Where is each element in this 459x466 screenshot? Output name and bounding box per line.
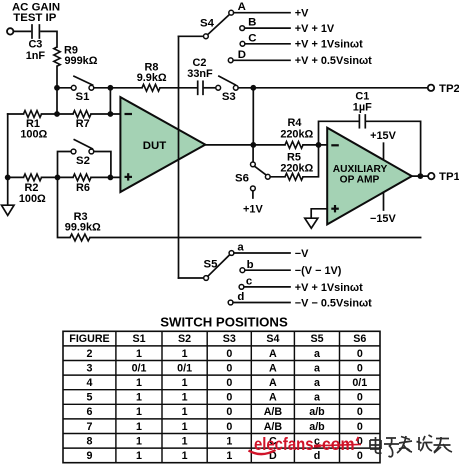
svg-text:S2: S2 [76, 155, 90, 167]
wire S5 contact a [234, 252, 290, 254]
wire R9 node to inverting line [56, 88, 58, 114]
node output/S3 junction [250, 142, 256, 148]
svg-text:A: A [238, 1, 246, 13]
resistor R9 [54, 47, 60, 66]
wire to S4 pivot [179, 35, 204, 37]
svg-text:0: 0 [357, 348, 363, 360]
wire S4 contact B [245, 27, 290, 29]
svg-text:c: c [246, 276, 252, 288]
svg-text:a: a [314, 392, 321, 404]
svg-text:7: 7 [87, 421, 93, 433]
capacitor C3 [32, 25, 39, 38]
svg-text:100Ω: 100Ω [19, 193, 46, 205]
ground aux [305, 218, 318, 228]
watermark chinese characters [370, 435, 452, 457]
op-amp DUT [120, 97, 205, 192]
wire S4 contact D [233, 59, 290, 61]
resistor R3 [70, 234, 90, 241]
node TP2 line junction [250, 85, 256, 91]
svg-text:S6: S6 [353, 333, 366, 345]
svg-text:OP AMP: OP AMP [340, 174, 380, 185]
node R4/R5/C1 junction [316, 142, 322, 148]
svg-text:a: a [314, 377, 321, 389]
wire C2 to S3 [204, 87, 216, 89]
ground [2, 205, 15, 215]
switch S5 [204, 251, 245, 305]
wire S1 to junction [94, 87, 142, 89]
resistor R7 [73, 111, 91, 118]
switch S3 [216, 76, 238, 90]
svg-text:0/1: 0/1 [177, 362, 192, 374]
wire junction down to inverting input line [109, 88, 111, 114]
wire S5 contact d [233, 302, 290, 304]
svg-text:−15V: −15V [370, 213, 396, 225]
svg-text:FIGURE: FIGURE [69, 333, 109, 345]
svg-text:R7: R7 [76, 118, 90, 130]
svg-text:0: 0 [226, 406, 232, 418]
svg-text:a/b: a/b [309, 421, 325, 433]
label +15V supply [370, 130, 396, 159]
wire S5 contact c [244, 286, 290, 288]
table row figure 7 [87, 421, 363, 433]
node S1/R8 junction [108, 85, 114, 91]
svg-text:1: 1 [136, 435, 142, 447]
svg-text:1: 1 [182, 406, 188, 418]
resistor R4 [285, 142, 303, 149]
svg-text:1: 1 [136, 421, 142, 433]
svg-text:8: 8 [87, 435, 93, 447]
resistor R5 [285, 173, 303, 180]
svg-text:1: 1 [182, 421, 188, 433]
switch S6 [251, 145, 271, 198]
svg-text:S3: S3 [222, 91, 236, 103]
wire aux output [412, 175, 428, 177]
wire R6 to DUT plus input [91, 176, 121, 178]
svg-text:1: 1 [136, 377, 142, 389]
svg-text:3: 3 [87, 362, 93, 374]
svg-text:S5: S5 [310, 333, 323, 345]
svg-text:S4: S4 [200, 18, 215, 30]
wire R2 to R6 [42, 176, 74, 178]
table row figure 5 [87, 392, 363, 404]
table row figure 9 [87, 450, 363, 462]
table switch positions grid [63, 331, 380, 462]
svg-text:elecfans: elecfans [254, 434, 314, 454]
svg-text:D: D [238, 49, 246, 61]
svg-text:0: 0 [226, 392, 232, 404]
svg-text:A: A [269, 392, 277, 404]
label R1 100ohm [20, 118, 47, 141]
svg-text:TP1: TP1 [439, 171, 459, 183]
svg-text:0: 0 [226, 421, 232, 433]
label R3 99.9k [65, 211, 101, 234]
wire S2 left leg [58, 152, 72, 178]
capacitor C2 [198, 81, 203, 94]
table row figure 6 [87, 406, 363, 418]
table row figure 8 [87, 435, 363, 447]
svg-text:0: 0 [226, 362, 232, 374]
svg-text:9.9kΩ: 9.9kΩ [137, 72, 167, 84]
wire node to S1 [57, 87, 71, 89]
capacitor C1 [359, 115, 365, 128]
watermark elecfans.com [249, 434, 362, 454]
svg-text:1µF: 1µF [353, 101, 372, 113]
svg-text:S1: S1 [76, 91, 91, 103]
svg-text:5: 5 [87, 392, 93, 404]
svg-text:220kΩ: 220kΩ [280, 128, 313, 140]
svg-text:0: 0 [357, 392, 363, 404]
wire DUT output [205, 144, 285, 146]
svg-text:1: 1 [136, 392, 142, 404]
wire R5 up to junction [303, 145, 319, 177]
wire S5 contact b [245, 269, 290, 271]
wire S5 leg [179, 277, 204, 279]
svg-text:R4: R4 [288, 117, 302, 129]
svg-text:C3: C3 [28, 38, 42, 50]
svg-text:S1: S1 [132, 333, 145, 345]
svg-text:1: 1 [182, 348, 188, 360]
label C2 33nF [187, 57, 213, 80]
input terminal [7, 28, 13, 34]
label R8 9.9k [137, 61, 167, 84]
node R9/S1 junction [54, 85, 60, 91]
svg-text:S3: S3 [223, 333, 236, 345]
label C1 1uF [353, 91, 372, 114]
table header row [69, 333, 366, 345]
resistor R1 [24, 111, 42, 118]
svg-text:1nF: 1nF [26, 50, 46, 62]
svg-text:100Ω: 100Ω [20, 128, 47, 140]
svg-text:S6: S6 [235, 173, 249, 185]
op-amp U1 auxiliary [327, 128, 412, 225]
svg-text:B: B [248, 17, 256, 29]
svg-text:+V + 1Vsinωt: +V + 1Vsinωt [295, 39, 363, 51]
svg-text:220kΩ: 220kΩ [280, 162, 313, 174]
wire left rail down [7, 114, 9, 205]
wire R1 to R7 [42, 113, 74, 115]
svg-text:0: 0 [357, 362, 363, 374]
wire S4 contact A [234, 12, 290, 14]
switch S4 [204, 10, 245, 62]
wire R7 to DUT minus input [91, 113, 121, 115]
wire inverting input line [8, 113, 24, 115]
wire R4 to aux minus input [303, 144, 327, 146]
svg-text:+V + 1Vsinωt: +V + 1Vsinωt [295, 282, 363, 294]
svg-text:A: A [269, 377, 277, 389]
table row figure 3 [87, 362, 363, 374]
svg-text:A: A [269, 362, 277, 374]
svg-text:1: 1 [136, 450, 142, 462]
wire noninverting input line [8, 176, 24, 178]
table row figure 4 [87, 377, 368, 389]
svg-text:+V: +V [295, 8, 309, 20]
svg-text:A/B: A/B [264, 421, 283, 433]
resistor R6 [73, 174, 91, 181]
wire R3 left leg down [58, 177, 71, 237]
svg-text:+1V: +1V [243, 203, 263, 215]
svg-text:1: 1 [226, 450, 232, 462]
node TP1 junction [418, 173, 424, 179]
wire S4 contact C [245, 43, 290, 45]
svg-text:6: 6 [87, 406, 93, 418]
svg-text:1: 1 [182, 435, 188, 447]
svg-text:99.9kΩ: 99.9kΩ [65, 221, 101, 233]
test point TP1 [428, 171, 459, 183]
switch S2 [71, 140, 94, 154]
label AC GAIN TEST IP [12, 2, 60, 25]
svg-text:DUT: DUT [143, 140, 166, 152]
node R6/DUT junction [108, 175, 114, 181]
svg-text:+V + 0.5Vsinωt: +V + 0.5Vsinωt [295, 55, 372, 67]
wire S2 right leg [94, 152, 111, 178]
wire S3 to TP2 [238, 87, 428, 89]
svg-text:A: A [269, 348, 277, 360]
wire aux plus input to ground [311, 209, 327, 218]
label R9 999k [64, 45, 98, 67]
label R2 100ohm [19, 182, 46, 205]
svg-text:0: 0 [357, 450, 363, 462]
svg-text:4: 4 [87, 377, 93, 389]
svg-text:1: 1 [136, 406, 142, 418]
wire C1 to output leg [367, 121, 421, 176]
svg-text:b: b [247, 259, 254, 271]
svg-text:0: 0 [226, 377, 232, 389]
svg-text:9: 9 [87, 450, 93, 462]
node left rail R2 junction [5, 175, 11, 181]
svg-text:A/B: A/B [264, 406, 283, 418]
wire R9 to node [56, 66, 58, 88]
svg-text:0: 0 [226, 348, 232, 360]
svg-text:1: 1 [182, 377, 188, 389]
node R2/R6/S2 junction [55, 175, 61, 181]
svg-text:C: C [248, 32, 256, 44]
svg-text:+15V: +15V [370, 130, 396, 142]
svg-text:a: a [237, 242, 244, 254]
svg-text:0/1: 0/1 [132, 362, 147, 374]
svg-text:a: a [314, 362, 321, 374]
svg-text:0: 0 [357, 421, 363, 433]
svg-text:a: a [314, 348, 321, 360]
svg-text:2: 2 [87, 348, 93, 360]
wire junction up to S3 line [252, 88, 254, 145]
svg-text:−V: −V [295, 248, 309, 260]
wire R3 to TP1 leg [90, 237, 421, 239]
svg-text:S2: S2 [178, 333, 191, 345]
node R7/DUT junction [108, 111, 114, 117]
svg-text:a/b: a/b [309, 406, 325, 418]
svg-text:TP2: TP2 [439, 83, 459, 95]
svg-text:0/1: 0/1 [352, 377, 367, 389]
wire C1 feedback path [319, 121, 359, 145]
svg-text:d: d [237, 291, 244, 303]
switch S1 [71, 76, 94, 90]
node R1/R7 junction [54, 111, 60, 117]
test point TP2 [428, 83, 459, 95]
svg-text:SWITCH POSITIONS: SWITCH POSITIONS [160, 314, 288, 329]
svg-text:−(V − 1V): −(V − 1V) [295, 265, 342, 277]
svg-text:1: 1 [136, 348, 142, 360]
wire S6 to R5 [270, 176, 285, 178]
svg-text:R6: R6 [76, 182, 90, 194]
wire DUT supply rail S4 to S5 [178, 36, 180, 278]
svg-text:0: 0 [357, 406, 363, 418]
svg-text:S5: S5 [204, 259, 219, 271]
label C3 1nF [26, 38, 46, 62]
svg-text:d: d [314, 450, 321, 462]
wire input to C3 [14, 30, 31, 32]
svg-text:1: 1 [226, 435, 232, 447]
table row figure 2 [87, 348, 363, 360]
svg-text:S4: S4 [266, 333, 279, 345]
svg-text:TEST IP: TEST IP [13, 12, 56, 24]
resistor R8 [142, 84, 160, 91]
svg-text:+V + 1V: +V + 1V [295, 23, 335, 35]
svg-text:33nF: 33nF [187, 68, 213, 80]
svg-text:999kΩ: 999kΩ [65, 55, 98, 67]
svg-text:1: 1 [182, 450, 188, 462]
label -15V supply [370, 193, 396, 225]
svg-text:1: 1 [182, 392, 188, 404]
resistor R2 [24, 174, 42, 181]
label R4 220k [280, 117, 313, 140]
wire R8 to C2 [160, 87, 196, 89]
wire C3 to corner and down to R9 [41, 31, 57, 47]
svg-text:−V − 0.5Vsinωt: −V − 0.5Vsinωt [295, 297, 372, 309]
label R5 220k [280, 151, 313, 174]
